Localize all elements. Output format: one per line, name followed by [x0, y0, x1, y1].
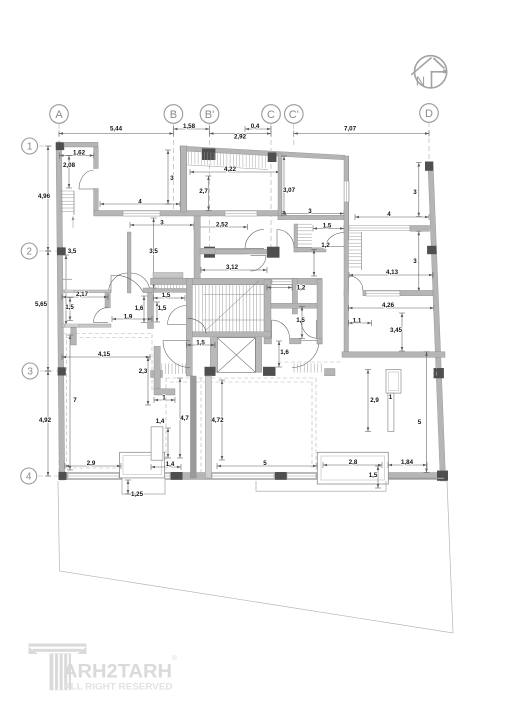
column D3 — [434, 368, 444, 378]
wall WC top thin — [62, 290, 111, 293]
svg-text:4,72: 4,72 — [211, 417, 224, 424]
left wall terrace strip — [180, 146, 187, 212]
door D14 stair bottom-left — [188, 318, 207, 333]
svg-text:1,6: 1,6 — [135, 305, 144, 312]
terrace bottom-right — [317, 452, 388, 484]
door D11 small room 1 — [272, 320, 290, 338]
wall stub left steps — [151, 371, 163, 378]
svg-text:5: 5 — [418, 419, 422, 426]
wall x292 vertical — [292, 279, 297, 315]
central stair diagonal — [205, 281, 259, 332]
grid line C — [270, 124, 272, 250]
dim 4,7 — [177, 378, 183, 458]
north arrow — [411, 56, 446, 88]
dim 4,96 1-2 — [45, 146, 51, 251]
dim 4,72 — [219, 380, 225, 460]
dim 1,6 — [141, 296, 147, 323]
dash dining top outer — [166, 377, 316, 379]
grid line 4 — [38, 475, 62, 477]
svg-text:1,62: 1,62 — [73, 150, 86, 157]
duct tall right — [388, 393, 394, 431]
dim 1,4 vertical — [165, 428, 171, 458]
terrace hatch strip — [189, 151, 266, 168]
svg-text:1,5: 1,5 — [369, 472, 378, 479]
bottom edge right of terrace — [389, 477, 444, 479]
dim 1,9 — [112, 316, 152, 322]
grid bubble C' — [285, 105, 304, 124]
svg-text:3: 3 — [170, 175, 174, 182]
dim 1 kitchen — [154, 397, 175, 403]
svg-text:1,6: 1,6 — [280, 349, 289, 356]
svg-text:3: 3 — [413, 189, 417, 196]
door D8 WC2 — [168, 306, 187, 325]
dim 1,5 WC left — [67, 298, 73, 321]
dim 2,92 B'-C — [210, 131, 272, 137]
dash dining right — [315, 378, 317, 470]
door D3 right of small stair — [326, 233, 345, 247]
stair treads room 4,13 — [347, 233, 362, 267]
top wall small room A1 — [64, 142, 98, 147]
svg-text:1,5: 1,5 — [65, 304, 74, 311]
svg-text:1: 1 — [389, 394, 393, 401]
svg-text:1,84: 1,84 — [401, 459, 414, 466]
dim 1,62 — [60, 153, 94, 159]
svg-text:2,08: 2,08 — [63, 162, 76, 169]
dim 1,84 — [388, 462, 427, 468]
main middle wall — [151, 278, 323, 284]
column D1 — [425, 162, 433, 171]
svg-text:D: D — [425, 108, 433, 120]
door D7 main center big — [111, 275, 143, 291]
svg-text:5,44: 5,44 — [110, 126, 123, 133]
grid line A — [58, 124, 60, 480]
dim 3 middle — [130, 222, 194, 228]
wall WC vertical x105 upper — [105, 292, 110, 308]
dim 1,5 right small room — [299, 307, 305, 339]
svg-text:1,5: 1,5 — [162, 292, 171, 299]
svg-text:3,07: 3,07 — [283, 187, 296, 194]
landing strip above duplex stair — [153, 273, 183, 279]
outer wall right (slanted) — [428, 166, 446, 481]
wall y352 right — [342, 352, 445, 358]
thin line y279 left WC — [62, 278, 72, 280]
window top-middle 1 — [123, 211, 160, 216]
dash inside right wall — [434, 300, 440, 470]
fireplace bottom-left — [120, 452, 165, 478]
steps right of elevator — [294, 364, 321, 373]
window right band — [349, 226, 410, 231]
svg-text:C': C' — [289, 109, 299, 121]
svg-text:4,96: 4,96 — [38, 193, 51, 200]
right wall small room A1 upper — [94, 147, 99, 169]
svg-text:1,4: 1,4 — [166, 461, 175, 468]
door D2 under room C left — [277, 230, 294, 248]
bottom wall room C — [278, 215, 348, 219]
outer wall left — [56, 142, 65, 480]
grid bubble A — [50, 105, 69, 124]
grid bubble 4 — [21, 468, 37, 484]
svg-text:2: 2 — [26, 247, 32, 258]
dim 3 right second — [416, 231, 422, 292]
top slanted wall B-C terrace — [180, 146, 345, 160]
svg-text:5: 5 — [263, 460, 267, 467]
north arrow corner nub — [443, 70, 447, 74]
dim 1,5 terrace — [375, 466, 381, 488]
window right wall room C — [345, 181, 350, 202]
door D4 lower leaf — [251, 256, 267, 272]
svg-text:1,2: 1,2 — [321, 242, 330, 249]
duct box right — [386, 370, 401, 394]
svg-text:1,5: 1,5 — [158, 305, 167, 312]
dim 5 bottom-middle — [217, 463, 317, 469]
double door left arc — [109, 273, 128, 293]
wall y290 right mid — [363, 290, 400, 295]
wall WC bottom thin — [62, 324, 111, 327]
lot boundary — [58, 481, 453, 633]
svg-text:4,22: 4,22 — [224, 166, 237, 173]
dim 4,22 — [190, 169, 280, 175]
svg-text:A: A — [55, 109, 63, 121]
svg-text:4: 4 — [138, 199, 142, 206]
wall x180 terrace side — [181, 146, 187, 212]
column A3 — [58, 367, 66, 375]
dim 1,2 under small stair — [311, 250, 317, 277]
dim 3,5 left — [63, 255, 69, 325]
svg-text:2,52: 2,52 — [216, 222, 229, 229]
dim 1,5 under room C — [313, 226, 344, 232]
svg-text:7,07: 7,07 — [344, 126, 357, 133]
wall left of small stair — [294, 224, 298, 252]
dash between center walls — [200, 378, 202, 474]
wall x205 center-bottom — [205, 376, 211, 478]
steps left of elevator — [155, 364, 186, 375]
right wall small room A1 lower — [94, 189, 99, 216]
grid bubble 1 — [22, 138, 38, 154]
terrace hatch bottom edge — [187, 165, 268, 170]
column C2 — [267, 247, 280, 258]
svg-text:0,4: 0,4 — [251, 123, 260, 130]
wall y290 right right-part — [400, 290, 433, 295]
svg-text:®: ® — [172, 654, 177, 662]
dim 1,4 horizontal — [151, 464, 181, 470]
svg-text:1,5: 1,5 — [323, 223, 332, 230]
dim 3 vertical left of B — [165, 150, 171, 204]
svg-text:4: 4 — [26, 472, 32, 483]
stair side line room 4,13 — [361, 232, 363, 270]
grid bubble C — [262, 105, 281, 124]
svg-text:N: N — [416, 74, 425, 89]
grid bubble B' — [200, 105, 219, 124]
dim 0,4 at C — [245, 126, 271, 132]
dash living left — [66, 334, 68, 468]
grid bubble D — [420, 104, 439, 123]
svg-text:1,25: 1,25 — [131, 491, 144, 498]
svg-text:2,17: 2,17 — [76, 291, 89, 298]
dash living top outer — [63, 333, 153, 335]
window main middle wall — [272, 279, 292, 284]
window WC bottom — [65, 324, 80, 327]
window x344 upper — [344, 181, 349, 202]
dim 2,17 — [62, 294, 108, 300]
svg-text:4,15: 4,15 — [98, 351, 111, 358]
grid line B' — [209, 124, 211, 256]
dim 4,26 — [349, 305, 435, 311]
svg-text:2,3: 2,3 — [139, 368, 148, 375]
dim 4,15 — [62, 354, 150, 360]
dim 4,13 — [349, 272, 433, 278]
dim 3,5 at x153 — [151, 218, 157, 288]
dim 2,7 — [206, 176, 212, 211]
duplex stair treads — [155, 279, 183, 289]
door D6 WC1 inner — [94, 308, 109, 323]
central stair border — [192, 285, 264, 332]
dim 3,12 — [201, 267, 267, 273]
wall x344 long — [344, 156, 349, 352]
door D1 top-left room — [79, 170, 94, 189]
svg-text:4,26: 4,26 — [382, 302, 395, 309]
svg-text:3,12: 3,12 — [226, 264, 239, 271]
svg-text:1,1: 1,1 — [353, 318, 362, 325]
stair hall left wall — [186, 279, 192, 377]
svg-text:1,58: 1,58 — [183, 123, 196, 130]
window top-middle 2 — [225, 211, 257, 216]
door D12 small room 2 — [301, 320, 317, 338]
wall below duplex stair — [153, 289, 187, 293]
stair hall right wall — [264, 279, 271, 338]
patio divider wall — [127, 232, 131, 293]
svg-text:3: 3 — [413, 258, 417, 265]
dim 4,92 3-4 — [45, 371, 51, 476]
left wall room C — [278, 153, 282, 220]
wall x317 — [317, 279, 322, 344]
central stair treads — [196, 285, 261, 331]
grid bubble B — [164, 105, 183, 124]
grid line 2 — [39, 250, 60, 252]
column elevator right — [263, 367, 276, 376]
double door right arc — [131, 273, 150, 293]
svg-text:1,4: 1,4 — [156, 418, 165, 425]
column bottom 3 — [275, 472, 287, 480]
wall horizontal y248 left — [200, 248, 245, 254]
window WC top — [65, 290, 75, 292]
dash dining right inner — [311, 382, 313, 468]
dim 5,65 2-3 — [45, 251, 51, 371]
svg-text:4: 4 — [387, 211, 391, 218]
svg-text:1,2: 1,2 — [297, 285, 306, 292]
dim 3,45 — [399, 313, 405, 351]
dim 7,07 C'-D — [294, 131, 429, 137]
window bottom-left 1 — [68, 474, 119, 479]
dim 4 top-right — [355, 214, 429, 220]
svg-text:5,65: 5,65 — [35, 301, 48, 308]
dim 5,44 A-B — [59, 131, 173, 137]
svg-text:4,92: 4,92 — [39, 417, 52, 424]
svg-text:ARH2TARH: ARH2TARH — [63, 661, 172, 683]
svg-text:ALL RIGHT RESERVED: ALL RIGHT RESERVED — [64, 682, 173, 693]
wall below small stair — [294, 248, 326, 252]
dim 5 right — [424, 352, 430, 473]
window bottom-left 2 — [128, 474, 170, 479]
wall small room y303 — [271, 303, 318, 308]
wall y338 piece 1 — [264, 338, 272, 344]
wall y389 kitchen — [154, 389, 175, 395]
column A2 — [57, 247, 66, 255]
dash dining left — [165, 378, 167, 470]
door D13 right room — [349, 276, 363, 290]
dim 2,3 — [145, 357, 151, 405]
step outline bottom-middle — [256, 481, 386, 491]
dim 2,08 — [66, 156, 72, 189]
outer wall bottom band — [62, 473, 444, 480]
svg-text:2,7: 2,7 — [199, 188, 208, 195]
wall x190 center-bottom — [190, 376, 196, 478]
column elevator left — [205, 367, 216, 376]
dim 1,5 WC2 v — [154, 302, 160, 322]
dim 1,5 elevator left — [187, 342, 216, 348]
svg-text:1,5: 1,5 — [196, 340, 205, 347]
svg-text:3,5: 3,5 — [149, 248, 158, 255]
logo pillar icon — [29, 644, 87, 691]
svg-text:3: 3 — [27, 367, 33, 378]
dim 2,9 bottom-left — [65, 463, 121, 469]
dim 1,6 elevator right — [276, 341, 282, 367]
grid line 1 — [39, 145, 60, 147]
dash terrace edge below steps — [278, 361, 342, 363]
svg-text:7: 7 — [73, 397, 77, 404]
door D9 to living left — [163, 341, 190, 368]
wall right band solid — [410, 226, 430, 232]
svg-text:B': B' — [205, 109, 214, 121]
svg-text:3,45: 3,45 — [390, 327, 403, 334]
dim 2,8 — [323, 462, 382, 468]
svg-text:1,9: 1,9 — [124, 314, 133, 321]
svg-text:2,9: 2,9 — [370, 397, 379, 404]
dim 7 living — [67, 335, 73, 470]
dim 1,58 B-B' — [173, 126, 209, 132]
dim 2,52 — [194, 224, 248, 230]
wall y338 piece 3 — [317, 338, 322, 344]
wall y338 piece 2 — [290, 338, 302, 344]
svg-text:1: 1 — [162, 395, 166, 402]
dash living bottom — [67, 467, 153, 469]
door D10 to living right — [292, 341, 319, 368]
dim 1,2 lobby — [267, 285, 292, 291]
wall x154 kitchen — [154, 346, 160, 390]
dim 4 patio — [100, 201, 180, 207]
svg-text:4,13: 4,13 — [386, 269, 399, 276]
wall horizontal y249 between columns — [215, 249, 267, 254]
wall stub right steps — [325, 369, 336, 376]
balcony bottom-left — [122, 478, 165, 494]
grid line C' — [293, 124, 295, 146]
window bottom-middle — [212, 474, 274, 479]
dim 3 right top — [416, 163, 422, 217]
svg-text:4,7: 4,7 — [180, 415, 189, 422]
column D4 — [437, 471, 448, 481]
dim 1,25 — [125, 480, 131, 494]
dash living top inner — [67, 337, 153, 339]
grid line B — [172, 124, 174, 212]
window bottom-right of col — [287, 474, 316, 479]
duct tall bottom-left — [151, 427, 163, 460]
wall y290 right stub — [344, 290, 349, 295]
right wall room C — [344, 156, 348, 240]
column A1 — [56, 142, 64, 150]
svg-text:3: 3 — [160, 220, 164, 227]
stair arrow top-left — [72, 217, 74, 228]
wall top-middle band — [94, 211, 281, 217]
dash dining top inner — [170, 381, 312, 383]
svg-text:2,92: 2,92 — [234, 133, 247, 140]
stair hall bottom wall — [192, 332, 271, 337]
dim 3 room C — [282, 211, 344, 217]
small stair treads under room C — [298, 224, 313, 247]
column C1 — [268, 152, 277, 162]
logo pillar flutes — [54, 654, 68, 690]
column B'2 — [204, 247, 215, 258]
wall WC lower connector — [71, 328, 77, 345]
svg-text:3,5: 3,5 — [68, 248, 77, 255]
grid bubble 3 — [22, 363, 38, 379]
dash living right — [151, 334, 153, 390]
dim 3,07 — [281, 156, 287, 215]
stair side wall top-left — [73, 191, 75, 215]
dim 1,5 WC2 top — [154, 295, 186, 301]
column B'1 — [202, 148, 215, 160]
svg-text:2,9: 2,9 — [87, 460, 96, 467]
grid bubble 2 — [21, 243, 37, 259]
grid line 3 — [40, 370, 60, 372]
wall x147 vertical — [148, 288, 154, 329]
central stair landing lines — [203, 293, 264, 295]
dim 1,1 — [349, 320, 372, 326]
column D2 — [427, 246, 436, 254]
dim 2,9 right — [365, 370, 371, 432]
wall vertical x194 — [194, 216, 200, 279]
grid line D — [428, 122, 430, 162]
window y291 right — [366, 291, 400, 296]
svg-text:1: 1 — [27, 142, 33, 153]
svg-text:2,8: 2,8 — [349, 459, 358, 466]
elevator cab with X — [217, 338, 255, 373]
svg-text:3: 3 — [308, 208, 312, 215]
stair treads top-left — [61, 191, 75, 211]
door D4 stair room upper leaf — [245, 230, 264, 249]
column bottom 2 — [171, 472, 183, 480]
wall y288 x143-153 — [143, 288, 154, 293]
svg-text:C: C — [267, 109, 275, 121]
column A4 — [59, 472, 67, 480]
elevator shaft walls — [210, 338, 217, 373]
svg-text:B: B — [170, 109, 177, 121]
